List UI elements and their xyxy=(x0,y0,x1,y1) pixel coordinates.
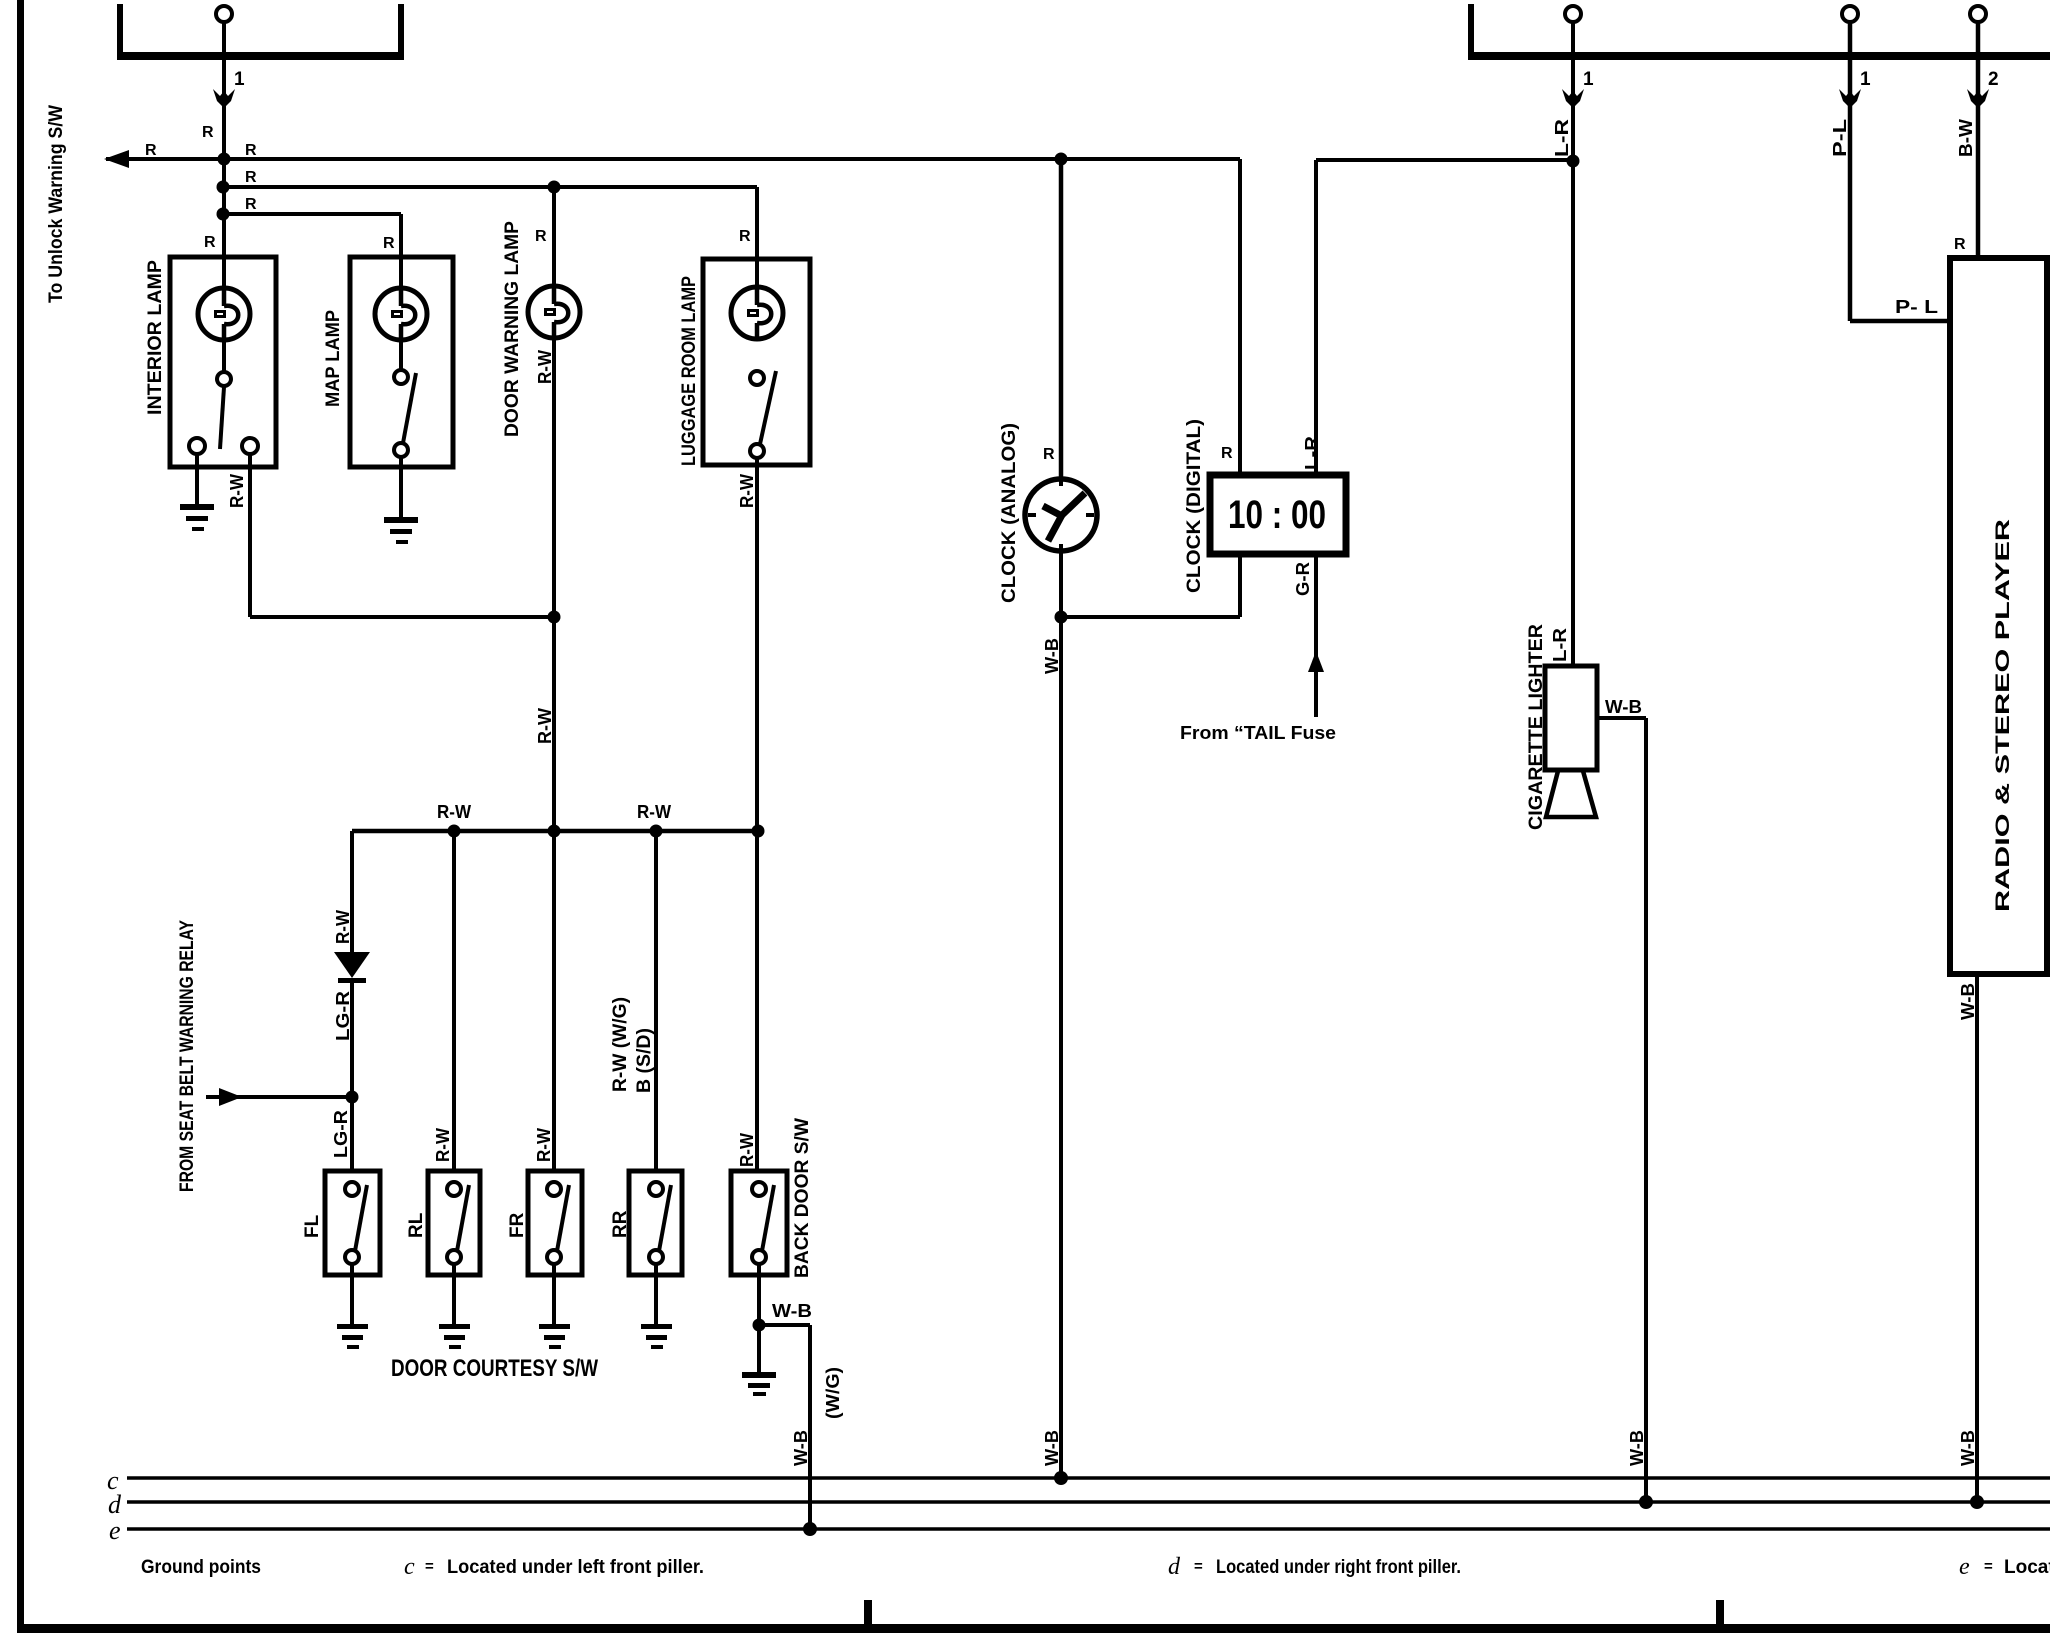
wire RR to ground xyxy=(654,1264,658,1325)
svg-text:1: 1 xyxy=(1860,69,1871,90)
connector arrow 1 xyxy=(213,89,235,108)
svg-text:2: 2 xyxy=(1988,69,1999,90)
page bottom border xyxy=(17,1624,2050,1633)
interior lamp switch common terminal xyxy=(217,372,231,386)
bulb interior lamp xyxy=(198,288,250,340)
ground interior lamp xyxy=(180,504,214,531)
right connector pin circle 1 xyxy=(1565,6,1581,22)
svg-text:10 : 00: 10 : 00 xyxy=(1228,493,1326,537)
ground map lamp xyxy=(384,517,418,544)
wire R second horizontal to luggage lamp xyxy=(223,187,757,292)
svg-text:R: R xyxy=(202,124,214,141)
switch RL contacts xyxy=(447,1182,469,1264)
svg-text:DOOR COURTESY S/W: DOOR COURTESY S/W xyxy=(391,1355,598,1382)
right connector pin circle 3 xyxy=(1970,6,1986,22)
svg-text:B-W: B-W xyxy=(1956,119,1976,157)
svg-text:(W/G): (W/G) xyxy=(823,1367,843,1419)
left connector bracket xyxy=(117,4,404,60)
svg-text:1: 1 xyxy=(234,69,245,90)
svg-text:RADIO & STEREO PLAYER: RADIO & STEREO PLAYER xyxy=(1993,519,2014,912)
wire pin 1 down xyxy=(222,22,226,292)
svg-text:R-W: R-W xyxy=(535,350,555,384)
switch back door box xyxy=(731,1171,787,1275)
luggage switch blade xyxy=(760,371,776,444)
node bus x758 xyxy=(752,825,765,838)
arrowhead to unlock warning xyxy=(104,150,129,168)
node junction 3 xyxy=(217,208,230,221)
wire lighter W-B to bus d xyxy=(1597,718,1646,1502)
bulb luggage room lamp xyxy=(731,287,783,339)
svg-text:c: c xyxy=(404,1554,415,1580)
connector arrow P-L xyxy=(1839,89,1861,108)
wire FL to ground xyxy=(350,1264,354,1325)
svg-text:R-W: R-W xyxy=(737,1133,757,1167)
map lamp switch bottom terminal xyxy=(394,443,408,457)
interior lamp switch blade xyxy=(220,387,224,449)
wire radio W-B to bus d xyxy=(1975,974,1979,1502)
cigarette lighter funnel xyxy=(1546,771,1596,817)
svg-text:FR: FR xyxy=(507,1212,528,1238)
svg-text:e: e xyxy=(109,1516,121,1545)
wire RL branch xyxy=(452,831,456,1171)
svg-text:Located under left front pille: Located under left front piller. xyxy=(447,1557,704,1578)
switch back door contacts xyxy=(752,1182,774,1264)
wire RR branch xyxy=(654,831,658,1171)
node bus x656 xyxy=(650,825,663,838)
svg-text:W-B: W-B xyxy=(791,1430,811,1466)
svg-text:R-W: R-W xyxy=(534,1128,554,1162)
wire interior lamp to ground xyxy=(195,454,199,505)
svg-text:R: R xyxy=(145,142,157,159)
wire G-R from TAIL fuse xyxy=(1314,554,1318,717)
node bus x454 xyxy=(448,825,461,838)
clock analog symbol xyxy=(1025,478,1097,552)
svg-text:R: R xyxy=(383,235,395,252)
svg-text:R: R xyxy=(245,169,257,186)
wire R main horizontal xyxy=(224,157,1240,161)
svg-text:CLOCK (ANALOG): CLOCK (ANALOG) xyxy=(999,423,1020,603)
interior lamp left terminal xyxy=(189,438,205,454)
svg-text:Located under right front pill: Located under right front piller. xyxy=(1216,1557,1461,1578)
svg-text:RL: RL xyxy=(406,1212,427,1238)
fold tick 1 xyxy=(864,1600,872,1624)
svg-text:R: R xyxy=(739,228,751,245)
node L-R junction xyxy=(1567,155,1580,168)
svg-text:1: 1 xyxy=(1583,69,1594,90)
ground FR xyxy=(539,1324,570,1349)
wire door warning lamp vertical xyxy=(552,187,556,1171)
wire RL to ground xyxy=(452,1264,456,1325)
svg-text:R-W: R-W xyxy=(227,474,247,508)
svg-text:From “TAIL Fuse: From “TAIL Fuse xyxy=(1180,723,1336,743)
svg-text:R-W: R-W xyxy=(333,910,353,944)
wire map lamp to ground xyxy=(399,457,403,518)
wire bulb link interior xyxy=(222,337,226,372)
wire FL branch upper xyxy=(350,831,354,953)
right connector bracket xyxy=(1468,4,2050,60)
svg-text:W-B: W-B xyxy=(1627,1430,1647,1466)
wire back door down xyxy=(757,1264,761,1373)
node clocks ground junction xyxy=(1055,611,1068,624)
right connector pin circle 2 xyxy=(1842,6,1858,22)
wire R-W bus horizontal xyxy=(352,829,758,834)
legend e xyxy=(1959,1554,2050,1580)
wire luggage lamp down xyxy=(755,458,759,1171)
svg-text:W-B: W-B xyxy=(1958,1430,1978,1466)
svg-text:R: R xyxy=(535,228,547,245)
wire analog clock ground W-B xyxy=(1059,550,1063,1478)
connector arrow B-W xyxy=(1967,89,1989,108)
ground FL xyxy=(337,1324,368,1349)
svg-text:R: R xyxy=(1221,445,1233,462)
legend d xyxy=(1168,1554,1461,1580)
svg-text:CIGARETTE LIGHTER: CIGARETTE LIGHTER xyxy=(1526,624,1547,830)
svg-text:MAP LAMP: MAP LAMP xyxy=(323,310,344,407)
bus e xyxy=(127,1527,2050,1531)
svg-text:=: = xyxy=(1984,1558,1993,1575)
arrowhead seat belt xyxy=(219,1088,242,1106)
svg-text:Ground points: Ground points xyxy=(141,1557,261,1578)
node W/G on bus e xyxy=(803,1522,817,1536)
switch FL contacts xyxy=(345,1182,367,1264)
svg-text:LUGGAGE ROOM LAMP: LUGGAGE ROOM LAMP xyxy=(679,276,700,466)
switch RL box xyxy=(428,1171,480,1275)
switch FR box xyxy=(528,1171,582,1275)
interior lamp right terminal xyxy=(242,438,258,454)
svg-text:L-R: L-R xyxy=(1302,436,1322,470)
legend c xyxy=(404,1554,704,1580)
svg-text:R: R xyxy=(204,234,216,251)
svg-text:RR: RR xyxy=(610,1210,631,1238)
luggage room lamp box xyxy=(703,259,810,465)
svg-text:R-W: R-W xyxy=(535,708,555,744)
node analog clock tap xyxy=(1055,153,1068,166)
svg-text:R: R xyxy=(245,196,257,213)
left connector pin circle xyxy=(216,6,232,22)
diode seat belt warning xyxy=(334,952,370,983)
svg-text:B (S/D): B (S/D) xyxy=(634,1028,655,1093)
bulb map lamp xyxy=(375,288,427,340)
svg-text:W-B: W-B xyxy=(772,1301,812,1321)
node R-W junction from interior lamp xyxy=(548,611,561,624)
wire R-W interior lamp down xyxy=(250,454,554,617)
switch FL box xyxy=(325,1171,380,1275)
node lighter on bus d xyxy=(1639,1495,1653,1509)
wire B-W down xyxy=(1976,22,1981,260)
ground back door xyxy=(742,1372,776,1396)
wire FR to ground xyxy=(552,1264,556,1325)
wire from seat belt warning relay xyxy=(206,1095,352,1099)
node junction 2 xyxy=(217,181,230,194)
bulb door warning lamp xyxy=(528,286,580,338)
map lamp switch top terminal xyxy=(394,370,408,384)
svg-text:W-B: W-B xyxy=(1042,1430,1062,1466)
svg-text:R-W: R-W xyxy=(737,474,757,508)
wire R to unlock warning (left arrow) xyxy=(106,157,224,161)
clock digital box xyxy=(1210,475,1346,554)
svg-text:d: d xyxy=(1168,1554,1181,1580)
wire L-R vertical to lighter xyxy=(1571,22,1575,668)
svg-text:e: e xyxy=(1959,1554,1970,1580)
connector arrow lighter xyxy=(1562,89,1584,108)
wire analog clock feed xyxy=(1059,159,1064,490)
svg-text:L-R: L-R xyxy=(1552,119,1572,157)
bus d xyxy=(127,1500,2050,1504)
node junction 1 xyxy=(218,153,231,166)
switch FR contacts xyxy=(547,1182,569,1264)
page left border xyxy=(17,0,24,1630)
switch RR contacts xyxy=(649,1182,671,1264)
node analog clock on bus c xyxy=(1054,1471,1068,1485)
wire bulb link map xyxy=(399,337,403,370)
svg-text:R-W (W/G): R-W (W/G) xyxy=(610,997,631,1092)
svg-text:=: = xyxy=(425,1558,434,1575)
svg-text:R: R xyxy=(1043,446,1055,463)
svg-text:CLOCK (DIGITAL): CLOCK (DIGITAL) xyxy=(1184,419,1205,593)
wire digital clock ground to junction xyxy=(1061,554,1240,617)
map lamp box xyxy=(350,257,453,467)
svg-text:INTERIOR LAMP: INTERIOR LAMP xyxy=(145,260,166,415)
svg-text:FL: FL xyxy=(302,1214,323,1238)
svg-text:W-B: W-B xyxy=(1605,697,1642,717)
node door warning tap xyxy=(548,181,561,194)
svg-text:R: R xyxy=(1954,236,1966,253)
svg-text:R-W: R-W xyxy=(437,802,471,822)
node bus x554 xyxy=(548,825,561,838)
svg-text:BACK DOOR S/W: BACK DOOR S/W xyxy=(792,1118,813,1278)
bus c xyxy=(127,1476,2050,1480)
ground RR xyxy=(641,1324,672,1349)
node seat belt junction xyxy=(346,1091,359,1104)
luggage switch bottom terminal xyxy=(750,444,764,458)
node radio on bus d xyxy=(1970,1495,1984,1509)
svg-text:=: = xyxy=(1194,1558,1203,1575)
svg-text:FROM SEAT BELT WARNING RELAY: FROM SEAT BELT WARNING RELAY xyxy=(177,920,198,1192)
arrowhead TAIL fuse up xyxy=(1308,651,1324,672)
interior lamp box xyxy=(170,257,276,467)
svg-text:d: d xyxy=(108,1490,122,1519)
svg-text:R-W: R-W xyxy=(637,802,671,822)
wire digital clock feed R xyxy=(1238,159,1242,478)
ground RL xyxy=(439,1324,470,1349)
svg-text:W-B: W-B xyxy=(1958,983,1978,1020)
wire FL branch lower xyxy=(350,983,354,1171)
svg-text:P- L: P- L xyxy=(1895,297,1938,317)
svg-text:DOOR WARNING LAMP: DOOR WARNING LAMP xyxy=(502,221,523,437)
svg-text:LG-R: LG-R xyxy=(331,1110,351,1158)
map lamp switch blade xyxy=(403,373,416,443)
wire branch to W/G xyxy=(759,1325,810,1529)
svg-text:W-B: W-B xyxy=(1042,638,1062,674)
radio box xyxy=(1950,258,2047,974)
svg-text:Located: Located xyxy=(2004,1557,2050,1578)
svg-text:G-R: G-R xyxy=(1293,562,1313,596)
svg-text:R-W: R-W xyxy=(433,1128,453,1162)
luggage switch top terminal xyxy=(750,371,764,385)
wire P-L down xyxy=(1850,22,1950,321)
svg-text:P-L: P-L xyxy=(1830,119,1850,157)
svg-text:To Unlock Warning S/W: To Unlock Warning S/W xyxy=(46,105,67,303)
wire R third horizontal to map lamp xyxy=(223,214,401,292)
node back door W-B junction xyxy=(753,1319,766,1332)
fold tick 2 xyxy=(1716,1600,1724,1624)
svg-text:L-R: L-R xyxy=(1550,628,1570,662)
cigarette lighter body xyxy=(1545,666,1597,770)
svg-text:R: R xyxy=(245,142,257,159)
wire L-R horizontal xyxy=(1316,160,1573,478)
switch RR box xyxy=(629,1171,682,1275)
